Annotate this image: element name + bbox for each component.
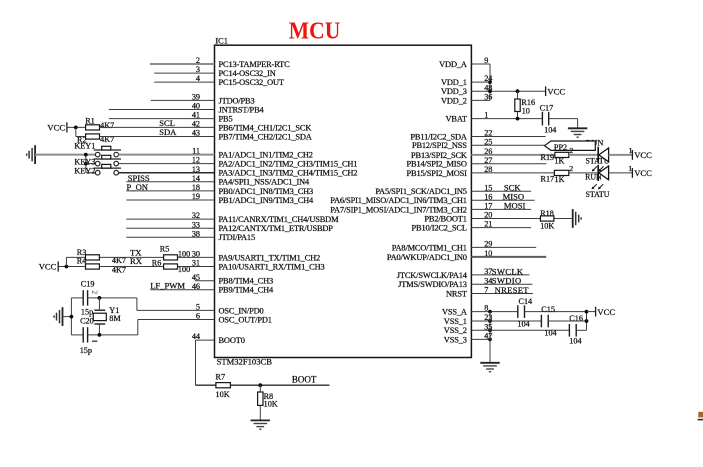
junction bbox=[488, 328, 492, 332]
svg-text:VSS_2: VSS_2 bbox=[444, 326, 467, 335]
wire pin 43 SDA bbox=[100, 136, 215, 138]
label R8 bbox=[264, 392, 274, 401]
wire ground to KEY1 bbox=[35, 154, 95, 156]
LED D2 (RUN) bbox=[598, 165, 608, 181]
svg-text:C16: C16 bbox=[569, 314, 583, 323]
wire stub KEY2 left bbox=[86, 172, 96, 174]
svg-text:PB1/ADC1_IN9/TIM3_CH4: PB1/ADC1_IN9/TIM3_CH4 bbox=[219, 196, 315, 205]
pin number 11 (left) bbox=[192, 147, 200, 156]
wire VCC to junction bbox=[67, 126, 86, 128]
svg-text:VSS_3: VSS_3 bbox=[444, 335, 467, 344]
pin label PB1/ADC1_IN9/TIM3_CH4 (pin 19) bbox=[219, 196, 315, 205]
pin number 13 (left) bbox=[192, 165, 200, 174]
svg-text:C15: C15 bbox=[541, 305, 555, 314]
label C14 bbox=[519, 297, 533, 306]
svg-text:R7: R7 bbox=[216, 373, 226, 382]
svg-text:C17: C17 bbox=[540, 103, 554, 112]
wire tee to VCC bbox=[587, 311, 596, 313]
value 10K (R18) bbox=[540, 222, 554, 231]
wire pin 1 VBAT bbox=[471, 118, 542, 120]
svg-text:JTCK/SWCLK/PA14: JTCK/SWCLK/PA14 bbox=[397, 271, 468, 280]
pin label PB8/TIM4_CH3 (pin 45) bbox=[219, 277, 274, 286]
svg-text:PB15/SPI2_MOSI: PB15/SPI2_MOSI bbox=[407, 169, 468, 178]
value 104 (C17) bbox=[544, 126, 556, 135]
resistor R16 bbox=[515, 99, 520, 112]
wire BOOT left bbox=[196, 384, 216, 386]
svg-text:C19: C19 bbox=[81, 280, 95, 289]
pin label JTDO/PB3 (pin 39) bbox=[219, 96, 255, 105]
junction bbox=[84, 162, 88, 166]
wire pin 39 bbox=[151, 99, 215, 101]
wire stub KEY3 left bbox=[86, 163, 96, 165]
svg-text:PB2/BOOT1: PB2/BOOT1 bbox=[424, 214, 466, 223]
label C15 bbox=[541, 305, 555, 314]
junction bbox=[516, 89, 520, 93]
junction bbox=[84, 153, 88, 157]
wire pin 44 stub bbox=[196, 339, 215, 341]
wire pin 3 bbox=[154, 72, 214, 74]
wire pin 4 bbox=[154, 81, 214, 83]
pin number 8 (right) bbox=[484, 304, 488, 313]
svg-text:15p: 15p bbox=[80, 346, 92, 355]
wire pin 45 bbox=[195, 280, 215, 282]
wire stub to R3 bbox=[66, 256, 85, 258]
pin label PA7/SIP1_MOSI/ADC1_IN7/TIM3_CH2 (pin 17) bbox=[330, 205, 467, 214]
net label LF_PWM bbox=[150, 280, 185, 290]
label R4 bbox=[77, 257, 87, 266]
svg-text:VCC: VCC bbox=[39, 262, 57, 272]
svg-text:2: 2 bbox=[91, 290, 100, 294]
pin number 33 (left) bbox=[192, 220, 200, 229]
wire pin 6 OSC_OUT bbox=[138, 319, 215, 321]
wire junction up to R3 bbox=[65, 257, 67, 266]
pin number 35 (right) bbox=[484, 322, 492, 331]
pin label VDD_3 (pin 48) bbox=[441, 87, 467, 96]
resistor R1 bbox=[86, 125, 100, 130]
pin number 15 (right) bbox=[484, 183, 492, 192]
svg-text:KEY3: KEY3 bbox=[74, 158, 95, 167]
pin label PC14-OSC32_IN (pin 3) bbox=[219, 69, 276, 78]
svg-text:104: 104 bbox=[544, 126, 556, 135]
svg-text:R5: R5 bbox=[160, 245, 170, 254]
ground (R18, right-pointing) bbox=[573, 209, 581, 228]
svg-text:R19: R19 bbox=[541, 153, 555, 162]
wire pin 24 VDD_1 bbox=[471, 81, 490, 83]
pin number 45 (left) bbox=[192, 273, 200, 282]
value 10K (R7) bbox=[216, 390, 230, 399]
pin number 2 (left) bbox=[196, 56, 200, 65]
wire C20 right to elbow bbox=[88, 334, 138, 336]
pin number 4 (left) bbox=[196, 74, 200, 83]
pin label JTCK/SWCLK/PA14 (pin 37) bbox=[397, 271, 468, 280]
switch KEY1 bbox=[94, 146, 121, 157]
pin number 32 (left) bbox=[192, 211, 200, 220]
svg-text:PA5/SPI1_SCK/ADC1_IN5: PA5/SPI1_SCK/ADC1_IN5 bbox=[375, 187, 466, 196]
switch KEY3 bbox=[94, 155, 121, 166]
wire key bus vertical bbox=[85, 155, 87, 173]
svg-text:VCC: VCC bbox=[634, 168, 652, 178]
svg-text:PA9/USART1_TX/TIM1_CH2: PA9/USART1_TX/TIM1_CH2 bbox=[219, 253, 321, 262]
value 4K7 (R2) bbox=[100, 135, 114, 144]
svg-text:15p: 15p bbox=[81, 307, 93, 316]
wire left vertical (C19-C20) bbox=[70, 298, 72, 335]
wire pin 7 NRESET bbox=[471, 293, 532, 295]
svg-text:10K: 10K bbox=[540, 222, 554, 231]
pin number 1 (right) bbox=[484, 111, 488, 120]
junction bbox=[488, 89, 492, 93]
value 4K7 (R3) bbox=[112, 256, 126, 265]
pin number 26 (right) bbox=[484, 147, 492, 156]
value STM32F103CB bbox=[217, 357, 273, 367]
pin number 22 (right) bbox=[484, 129, 492, 138]
net label SCK bbox=[504, 182, 522, 192]
svg-text:R17: R17 bbox=[541, 174, 555, 183]
LED D2 arrows bbox=[592, 184, 604, 189]
pin number 17 (right) bbox=[484, 202, 492, 211]
pin number 1 (LED1 anode) bbox=[629, 146, 633, 155]
resistor R3 bbox=[86, 255, 100, 260]
svg-text:STATU: STATU bbox=[586, 190, 610, 199]
resistor R19 bbox=[555, 152, 569, 157]
svg-text:10K: 10K bbox=[264, 400, 278, 409]
junction bbox=[488, 310, 492, 314]
pin label PB9/TIM4_CH4 (pin 46) bbox=[219, 286, 274, 295]
wire C14 to VCC tee bbox=[525, 311, 587, 313]
resistor R2 bbox=[86, 134, 100, 139]
resistor R18 bbox=[540, 216, 554, 221]
designator IC1 bbox=[215, 36, 228, 45]
wire elbow down to pin 5 row bbox=[136, 298, 138, 311]
label STATU (LED2) bbox=[586, 190, 610, 199]
LED D1 arrows bbox=[592, 166, 604, 171]
pin number 36 (right) bbox=[484, 93, 492, 102]
svg-text:PA7/SIP1_MOSI/ADC1_IN7/TIM3_CH: PA7/SIP1_MOSI/ADC1_IN7/TIM3_CH2 bbox=[330, 205, 467, 214]
wire pin 47 VSS_3 bbox=[471, 338, 490, 340]
net label RX bbox=[130, 256, 143, 266]
pin number 20 (right) bbox=[484, 211, 492, 220]
wire pin 34 SWDIO bbox=[471, 283, 532, 285]
value 104 (C14) bbox=[517, 319, 529, 328]
pin label VDD_2 (pin 36) bbox=[441, 96, 467, 105]
junction bbox=[488, 80, 492, 84]
value 4K7 (R1) bbox=[100, 121, 114, 130]
svg-text:R6: R6 bbox=[152, 259, 162, 268]
wire stub to R2 bbox=[76, 136, 86, 138]
pin label VSS_A (pin 8) bbox=[442, 308, 467, 317]
pin number 47 (right) bbox=[484, 332, 492, 341]
svg-text:4K7: 4K7 bbox=[100, 121, 114, 130]
junction bbox=[516, 117, 520, 121]
pin label PB2/BOOT1 (pin 20) bbox=[424, 214, 466, 223]
switch KEY2 bbox=[94, 164, 121, 175]
svg-text:SDA: SDA bbox=[159, 127, 177, 137]
wire pin 19 bbox=[126, 199, 214, 201]
wire pin 25 to PP2 flag bbox=[471, 144, 544, 146]
wire ground to crystal net bbox=[63, 316, 72, 318]
value 8M (Y1) bbox=[109, 314, 121, 323]
pin number 10 (right) bbox=[484, 249, 492, 258]
svg-text:PB6/TIM4_CH1/I2C1_SCK: PB6/TIM4_CH1/I2C1_SCK bbox=[219, 123, 312, 132]
junction bbox=[488, 319, 492, 323]
wire R8 top stub bbox=[259, 385, 261, 392]
svg-text:JTDI/PA15: JTDI/PA15 bbox=[219, 233, 256, 242]
pin label PB6/TIM4_CH1/I2C1_SCK (pin 42) bbox=[219, 123, 312, 132]
capacitor C15 bbox=[541, 315, 548, 328]
wire RX (R4 to R6) bbox=[99, 266, 163, 268]
svg-text:JTDO/PB3: JTDO/PB3 bbox=[219, 96, 255, 105]
pin number 9 (right) bbox=[484, 56, 488, 65]
pin label VSS_3 (pin 47) bbox=[444, 335, 467, 344]
junction bbox=[98, 333, 102, 337]
resistor R17 bbox=[554, 170, 568, 175]
wire pin 5 OSC_IN bbox=[137, 309, 215, 311]
svg-text:VSS_1: VSS_1 bbox=[444, 317, 467, 326]
net label SWCLK bbox=[492, 266, 524, 276]
net label RUN (above flag) bbox=[586, 138, 604, 147]
pin label VSS_1 (pin 23) bbox=[444, 317, 467, 326]
svg-text:PB10/I2C2_SCL: PB10/I2C2_SCL bbox=[412, 224, 467, 233]
svg-text:PA12/CANTX/TM1_ETR/USBDP: PA12/CANTX/TM1_ETR/USBDP bbox=[219, 224, 334, 233]
svg-text:C14: C14 bbox=[519, 297, 533, 306]
svg-text:VCC: VCC bbox=[634, 150, 652, 160]
pin number 25 (right) bbox=[484, 137, 492, 146]
pin number 40 (left) bbox=[192, 102, 200, 111]
wire pin 35 VSS_2 bbox=[471, 329, 569, 331]
wire pin 31 bbox=[178, 266, 215, 268]
value 15p (C20) bbox=[80, 346, 92, 355]
wire R17 to LED2 bbox=[569, 172, 598, 174]
power VCC (R1/R2 pull-ups) bbox=[47, 122, 66, 132]
svg-text:R4: R4 bbox=[77, 257, 87, 266]
crystal pin number 2 (rotated) bbox=[91, 290, 100, 294]
resistor R7 bbox=[216, 383, 231, 388]
label R19 bbox=[541, 153, 555, 162]
pin number 46 (left) bbox=[192, 282, 200, 291]
wire pin 17 MOSI bbox=[471, 208, 531, 210]
svg-text:PC14-OSC32_IN: PC14-OSC32_IN bbox=[219, 69, 276, 78]
wire pin 33 bbox=[126, 227, 214, 229]
value 100 (R6) bbox=[178, 265, 190, 274]
label KEY2 bbox=[74, 166, 95, 175]
crystal pin number 1 (rotated) bbox=[92, 340, 97, 342]
pin label BOOT0 (pin 44) bbox=[219, 336, 245, 345]
wire elbow up to pin 6 row bbox=[137, 320, 139, 335]
wire pin 2 bbox=[150, 63, 215, 65]
wire pin 23 VSS_1 bbox=[471, 320, 541, 322]
pin label PB10/I2C2_SCL (pin 21) bbox=[412, 224, 467, 233]
pin label PA4/SPI1_NSS/ADC1_IN4 (pin 14) bbox=[219, 178, 311, 187]
pin number 24 (right) bbox=[484, 74, 492, 83]
wire LED1 anode to VCC bbox=[609, 154, 633, 156]
net label P_ON bbox=[127, 182, 149, 192]
wire C20 left bbox=[71, 334, 83, 336]
label R2 bbox=[77, 136, 87, 145]
wire pin 48 VDD_3 to VCC bbox=[471, 90, 545, 92]
svg-text:R18: R18 bbox=[540, 209, 554, 218]
wire pin 10 bbox=[471, 256, 546, 258]
pin label PC13-TAMPER-RTC (pin 2) bbox=[219, 60, 291, 69]
label R7 bbox=[216, 373, 226, 382]
svg-text:MCU: MCU bbox=[289, 18, 341, 45]
wire pin 21 bbox=[471, 227, 531, 229]
svg-text:1K: 1K bbox=[555, 175, 565, 184]
net label SWDIO bbox=[492, 276, 522, 286]
svg-text:1K: 1K bbox=[554, 156, 564, 165]
pin label PB5 (pin 41) bbox=[219, 115, 233, 124]
wire pin 16 MISO bbox=[471, 199, 534, 201]
value 1K (R17) bbox=[555, 175, 565, 184]
label R18 bbox=[540, 209, 554, 218]
title MCU bbox=[289, 18, 341, 45]
label R5 bbox=[160, 245, 170, 254]
wire pin 20 to R18 bbox=[471, 218, 540, 220]
pin label VDD_A (pin 9) bbox=[439, 60, 467, 69]
pin number 1 (LED2 anode) bbox=[628, 164, 632, 173]
value 4K7 (R4) bbox=[112, 266, 126, 275]
value 15p (C19) bbox=[81, 307, 93, 316]
power VCC (LED2) bbox=[632, 168, 652, 178]
value 104 (C15) bbox=[544, 329, 556, 338]
wire pin 29 bbox=[471, 246, 536, 248]
pin label PB0/ADC1_IN8/TIM3_CH3 (pin 18) bbox=[219, 187, 314, 196]
ground (R8) bbox=[251, 420, 270, 429]
pin label NRST (pin 7) bbox=[446, 289, 467, 298]
crystal Y1 bbox=[93, 310, 106, 324]
label C16 bbox=[569, 314, 583, 323]
pin label VBAT (pin 1) bbox=[446, 115, 467, 124]
value 10 (R16) bbox=[522, 107, 530, 116]
label RUN (LED2) bbox=[585, 173, 602, 182]
label R16 bbox=[521, 98, 535, 107]
pin label PB14/SPI2_MISO (pin 27) bbox=[407, 160, 467, 169]
pin label OSC_OUT/PD1 (pin 6) bbox=[219, 315, 272, 324]
pin label PA2/ADC1_IN2/TIM2_CH3/TIM15_CH1 (pin 12) bbox=[219, 160, 358, 169]
wire VCC tee vertical bbox=[586, 312, 588, 331]
net label TX bbox=[130, 248, 142, 258]
svg-text:PB9/TIM4_CH4: PB9/TIM4_CH4 bbox=[219, 286, 274, 295]
junction bbox=[585, 319, 589, 323]
pin number 7 (right) bbox=[484, 286, 488, 295]
wire pin 41 bbox=[109, 118, 215, 120]
pin number 2 (LED2 cathode) bbox=[569, 164, 573, 173]
pin label PB7/TIM4_CH2/I2C1_SDA (pin 43) bbox=[219, 132, 312, 141]
capacitor C20 bbox=[83, 327, 87, 342]
svg-text:VCC: VCC bbox=[547, 86, 565, 96]
pin number 42 (left) bbox=[192, 120, 200, 129]
pin label PA3/ADC1_IN3/TIM2_CH4/TIM15_CH2 (pin 13) bbox=[219, 169, 358, 178]
junction bbox=[74, 126, 78, 130]
label R6 bbox=[152, 259, 162, 268]
label R17 bbox=[541, 174, 555, 183]
svg-text:R1: R1 bbox=[85, 116, 95, 125]
wire pin 28 to R17 bbox=[471, 172, 554, 174]
pin number 14 (left) bbox=[192, 174, 200, 183]
capacitor C16 bbox=[569, 324, 576, 337]
net label MOSI bbox=[504, 201, 526, 211]
wire R16 bottom stub bbox=[517, 112, 519, 119]
value 100 (R5) bbox=[178, 249, 190, 258]
wire pin 12 bbox=[119, 163, 215, 165]
wire C15 to VCC tee bbox=[548, 320, 586, 322]
pin label VDD_1 (pin 24) bbox=[441, 78, 467, 87]
svg-text:PA1/ADC1_IN1/TIM2_CH2: PA1/ADC1_IN1/TIM2_CH2 bbox=[219, 151, 313, 160]
svg-text:PB11/I2C2_SDA: PB11/I2C2_SDA bbox=[410, 132, 466, 141]
svg-text:VDD_3: VDD_3 bbox=[441, 87, 467, 96]
label KEY1 bbox=[74, 142, 95, 151]
svg-text:STM32F103CB: STM32F103CB bbox=[217, 357, 273, 367]
pin label PA1/ADC1_IN1/TIM2_CH2 (pin 11) bbox=[219, 151, 313, 160]
junction bbox=[258, 383, 262, 387]
wire pin 8 VSS_A bbox=[471, 311, 517, 313]
wire pin 38 bbox=[126, 236, 214, 238]
svg-text:VSS_A: VSS_A bbox=[442, 308, 467, 317]
svg-text:10K: 10K bbox=[216, 390, 230, 399]
svg-text:PB0/ADC1_IN8/TIM3_CH3: PB0/ADC1_IN8/TIM3_CH3 bbox=[219, 187, 314, 196]
wire C16 to VCC tee bbox=[576, 329, 586, 331]
power VCC (VSS caps) bbox=[596, 307, 616, 317]
label STATU (LED1) bbox=[586, 156, 610, 165]
pin label PA10/USART1_RX/TIM1_CH3 (pin 31) bbox=[219, 262, 325, 271]
pin number 18 (left) bbox=[192, 183, 200, 192]
pin number 2 (LED1 cathode) bbox=[569, 146, 573, 155]
wire R16 top stub bbox=[517, 91, 519, 99]
net label SCL bbox=[159, 118, 175, 128]
net label NRESET bbox=[495, 285, 530, 295]
wire R8 to ground bbox=[259, 405, 261, 420]
wire R18 to ground bbox=[554, 218, 572, 220]
pin number 27 (right) bbox=[484, 156, 492, 165]
net label BOOT bbox=[292, 374, 317, 384]
pin label JTMS/SWDIO/PA13 (pin 34) bbox=[398, 280, 467, 289]
power VCC (LED1) bbox=[632, 150, 652, 160]
wire pin 46 LF_PWM bbox=[150, 289, 214, 291]
pin number 37 (right) bbox=[484, 267, 492, 276]
svg-text:BOOT0: BOOT0 bbox=[219, 336, 245, 345]
wire VDD bus vertical bbox=[489, 64, 491, 100]
page edge text fragment bbox=[698, 412, 703, 420]
wire VCC to junction bbox=[58, 266, 85, 268]
pin number 34 (right) bbox=[484, 276, 492, 285]
svg-text:KEY1: KEY1 bbox=[74, 142, 95, 151]
pin label PA12/CANTX/TM1_ETR/USBDP (pin 33) bbox=[219, 224, 334, 233]
wire pin 9 VDD_A bbox=[471, 63, 490, 65]
svg-text:PC15-OSC32_OUT: PC15-OSC32_OUT bbox=[219, 78, 284, 87]
net label SDA bbox=[159, 127, 177, 137]
resistor R4 bbox=[86, 264, 100, 269]
pin label JNTRST/PB4 (pin 40) bbox=[219, 105, 265, 114]
svg-text:PB14/SPI2_MISO: PB14/SPI2_MISO bbox=[407, 160, 467, 169]
pin label PC15-OSC32_OUT (pin 4) bbox=[219, 78, 284, 87]
wire pin 30 bbox=[178, 256, 215, 258]
label C20 bbox=[80, 317, 94, 326]
svg-text:PA2/ADC1_IN2/TIM2_CH3/TIM15_CH: PA2/ADC1_IN2/TIM2_CH3/TIM15_CH1 bbox=[219, 160, 358, 169]
wire pin 44 vertical bbox=[195, 340, 197, 385]
junction bbox=[585, 310, 589, 314]
capacitor C17 bbox=[542, 112, 548, 126]
svg-text:VCC: VCC bbox=[597, 307, 615, 317]
pin label PA6/SPI1_MISO/ADC1_IN6/TIM3_CH1 (pin 16) bbox=[330, 196, 467, 205]
wire pin 14 SPISS bbox=[126, 181, 214, 183]
svg-text:PB8/TIM4_CH3: PB8/TIM4_CH3 bbox=[219, 277, 274, 286]
wire BOOT bbox=[230, 384, 329, 386]
pin label PB13/SPI2_SCK (pin 26) bbox=[411, 151, 467, 160]
wire pin 32 bbox=[126, 218, 214, 220]
svg-text:JNTRST/PB4: JNTRST/PB4 bbox=[219, 105, 265, 114]
power VCC (R3/R4) bbox=[39, 261, 58, 271]
pin number 23 (right) bbox=[484, 313, 492, 322]
pin label PB12/SPI2_NSS (pin 25) bbox=[412, 141, 467, 150]
junction bbox=[488, 338, 492, 342]
